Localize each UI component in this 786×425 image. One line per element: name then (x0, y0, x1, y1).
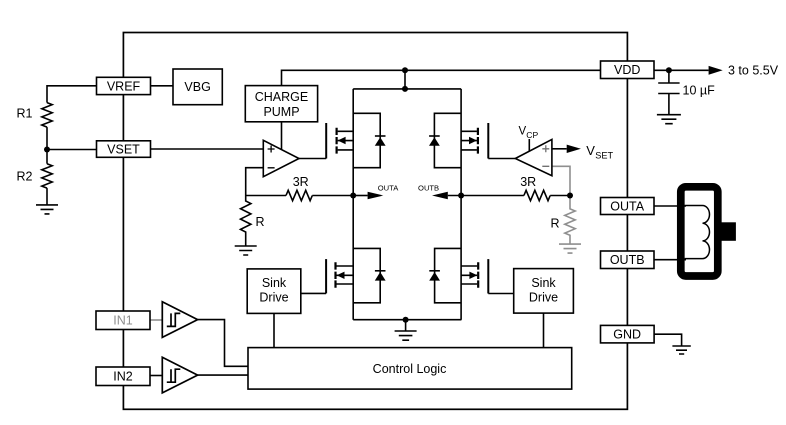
wire H-bridge top rail (353, 70, 461, 89)
transistor Q1 (high-side left) (326, 123, 353, 159)
wire body diode loop Q4 (435, 248, 462, 302)
wire left leg vertical (352, 89, 354, 320)
svg-text:Drive: Drive (259, 291, 288, 305)
wire sink drive right to gate (488, 293, 513, 295)
transistor Q2 (high-side right) (461, 123, 488, 159)
wire comparator2 minus input (gray) (552, 166, 570, 195)
ground below left R (235, 246, 257, 255)
wire R2 to ground (46, 188, 48, 205)
resistor R right (gray) (565, 196, 575, 245)
svg-text:Drive: Drive (529, 291, 558, 305)
ground below bridge (395, 331, 417, 340)
ground below C1 (657, 115, 681, 124)
arrow VSET out (567, 145, 581, 153)
svg-text:IN1: IN1 (113, 314, 133, 328)
svg-text:VDD: VDD (614, 63, 640, 77)
diode D3 (body diode Q3) (375, 271, 386, 281)
wire body diode loop Q2 (434, 113, 461, 167)
wire sink drive left to gate (301, 292, 326, 294)
wire IN1 to buffer1 (gray) (150, 319, 162, 321)
wire 3R right to node (550, 195, 570, 197)
node VDD rail junction (402, 67, 408, 73)
node OUTB junction (458, 193, 464, 199)
wire body diode loop Q3 (353, 248, 380, 302)
block Sink Drive right (514, 269, 574, 314)
resistor R2 (42, 164, 52, 188)
transistor Q4 (low-side right) (461, 259, 488, 293)
wire charge pump top to VDD rail (282, 70, 601, 85)
node R1/R2 junction (44, 147, 50, 153)
svg-text:Sink: Sink (262, 276, 287, 290)
wire body diode loop Q1 (353, 113, 380, 167)
diode D4 (body diode Q4) (429, 271, 440, 281)
svg-text:R1: R1 (17, 107, 33, 121)
wire GND box to ground (654, 334, 682, 346)
wire right leg vertical (460, 89, 462, 320)
inductor coil (685, 206, 710, 259)
svg-text:V: V (586, 143, 595, 158)
transistor Q3 (low-side left) (326, 259, 353, 293)
wire buffer2 output to control logic (198, 374, 248, 376)
wire OUTA box to motor (654, 205, 686, 207)
pin box VREF (97, 77, 151, 94)
svg-text:SET: SET (595, 150, 613, 160)
capacitor C1 (658, 70, 679, 114)
resistor R1 (42, 103, 52, 127)
wire op-amp output to gate (299, 158, 326, 160)
IC boundary (123, 33, 627, 410)
svg-text:3R: 3R (520, 175, 536, 189)
node OUTA stub (353, 195, 367, 197)
svg-text:V: V (519, 125, 527, 137)
svg-text:OUTB: OUTB (610, 253, 645, 267)
svg-text:CP: CP (526, 130, 538, 140)
node 3R/R right junction (567, 193, 573, 199)
pin box VDD (601, 61, 655, 79)
wire IN2 to buffer2 (150, 375, 162, 377)
pin box VSET (97, 141, 151, 158)
wire node to 3R (246, 195, 286, 197)
gray nets (150, 166, 581, 320)
resistor 3R right (524, 190, 550, 200)
diode D2 (body diode Q2) (429, 136, 440, 146)
pin box IN2 (96, 367, 150, 386)
svg-text:10 µF: 10 µF (683, 84, 716, 98)
wire OUTB box to motor (654, 259, 686, 261)
svg-text:3 to 5.5V: 3 to 5.5V (728, 64, 779, 78)
node bridge bottom junction (403, 317, 409, 323)
wire comparator2 Vcp lead (528, 139, 530, 152)
wire 3R to OUTA node (312, 195, 353, 197)
arrow OUTB (432, 192, 448, 199)
svg-text:IN2: IN2 (113, 370, 133, 384)
motor frame (681, 187, 718, 276)
pin and block boxes (96, 61, 654, 389)
svg-text:OUTB: OUTB (418, 183, 439, 192)
block Sink Drive left (247, 269, 301, 314)
ground below R2 (36, 205, 58, 214)
wire R1 to node (46, 127, 48, 164)
wire VDD to supply arrow (654, 69, 709, 71)
svg-text:GND: GND (613, 328, 641, 342)
block Control Logic (248, 348, 572, 390)
wire comparator2 output to gate (488, 158, 515, 160)
pin box OUTA (601, 198, 655, 215)
motor shaft tab (721, 222, 736, 241)
svg-text:3R: 3R (293, 175, 309, 189)
buffer U3 (IN1 schmitt trigger) (162, 302, 197, 338)
svg-text:Control Logic: Control Logic (373, 362, 447, 376)
block VBG (173, 69, 222, 105)
wire VREF to VBG (151, 85, 174, 87)
svg-text:CHARGE: CHARGE (255, 90, 308, 104)
resistor R left (241, 196, 251, 247)
pin box OUTB (601, 251, 655, 269)
svg-text:R2: R2 (17, 169, 33, 183)
svg-text:OUTA: OUTA (378, 183, 399, 192)
ground below right R (gray) (559, 244, 581, 253)
arrow OUTA (368, 192, 384, 199)
wire charge pump bottom to op-amp (281, 122, 283, 151)
svg-text:VSET: VSET (107, 143, 140, 157)
svg-text:Sink: Sink (531, 276, 556, 290)
wire sink drive right to control logic (543, 313, 545, 348)
wire comparator2 plus output stub (552, 148, 567, 150)
diode D1 (body diode Q1) (375, 136, 386, 146)
svg-text:R: R (551, 216, 560, 230)
arrow supply 3 to 5.5V (709, 66, 723, 75)
svg-text:VBG: VBG (184, 80, 210, 94)
label VSET arrow (586, 143, 613, 161)
motor load (681, 187, 736, 276)
wire bottom rail to ground (353, 320, 461, 331)
op-amp U2 (source drive comparator right) (515, 139, 552, 175)
pin box IN1 (96, 311, 150, 330)
ground at GND pin (672, 346, 690, 354)
svg-text:R: R (256, 215, 265, 229)
wire VREF to R1 top (47, 86, 97, 103)
buffer U4 (IN2 schmitt trigger) (162, 357, 197, 393)
wire buffer1 output to control logic (198, 320, 248, 367)
node VDD cap junction (666, 67, 672, 73)
svg-text:PUMP: PUMP (263, 105, 299, 119)
wire VSET to node (47, 149, 97, 151)
block CHARGE PUMP (245, 86, 317, 122)
wire sink drive left to control logic (273, 313, 275, 347)
node OUTA junction (350, 193, 356, 199)
svg-text:OUTA: OUTA (610, 200, 644, 214)
pin box GND (601, 325, 655, 343)
resistor 3R left (286, 190, 312, 200)
node bridge top junction (402, 86, 408, 92)
op-amp U1 (source drive comparator left) (263, 140, 299, 176)
wire OUTB node to 3R right (448, 195, 524, 197)
svg-text:VREF: VREF (107, 80, 141, 94)
label VCP (519, 125, 539, 140)
wire op-amp minus input (246, 168, 264, 196)
wire VSET to op-amp + input (151, 148, 264, 150)
